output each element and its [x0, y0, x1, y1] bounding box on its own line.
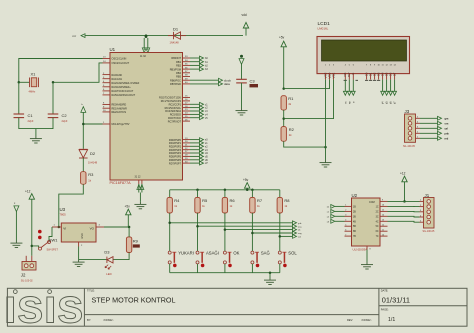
- capacitor C3: [236, 78, 258, 87]
- svg-text:C2: C2: [62, 113, 68, 118]
- title block frame: [7, 288, 467, 326]
- transistor-array U2 ULN2003A body: [345, 198, 388, 250]
- svg-text:RA4/T0CKI/C1OUT: RA4/T0CKI/C1OUT: [112, 90, 134, 93]
- svg-text:TITLE:: TITLE:: [87, 289, 95, 293]
- svg-text:2C: 2C: [376, 211, 379, 213]
- wire SW1 to U3: [49, 227, 52, 241]
- svg-text:vdd: vdd: [242, 13, 247, 17]
- svg-text:4MHz: 4MHz: [29, 90, 36, 94]
- resistor R1: [281, 96, 286, 110]
- svg-text:1: 1: [345, 205, 346, 207]
- isis logo: [4, 280, 84, 333]
- svg-text:14: 14: [382, 215, 384, 217]
- svg-text:<NONE>: <NONE>: [103, 318, 114, 322]
- wire c3 lower: [241, 83, 243, 108]
- svg-text:orn: orn: [445, 122, 449, 125]
- wire c3 upper: [241, 64, 243, 79]
- wire r9 top: [128, 227, 130, 237]
- ground pic: [134, 202, 146, 209]
- svg-text:3: 3: [420, 210, 421, 212]
- svg-text:COM: COM: [369, 201, 375, 204]
- svg-text:7C: 7C: [376, 236, 379, 238]
- svg-text:ısıs: ısıs: [4, 280, 84, 333]
- wire vdd rail: [284, 80, 330, 89]
- svg-text:16: 16: [382, 205, 384, 207]
- svg-text:RE0/AN5/RD: RE0/AN5/RD: [112, 104, 127, 107]
- svg-text:12: 12: [382, 225, 384, 227]
- svg-text:yel: yel: [445, 127, 449, 130]
- svg-text:RB7/PGD: RB7/PGD: [170, 83, 181, 86]
- ground c3: [236, 108, 248, 115]
- svg-text:ASAĞI: ASAĞI: [206, 250, 219, 255]
- svg-text:GND: GND: [81, 233, 84, 239]
- svg-text:1/1: 1/1: [388, 317, 395, 323]
- wire C2 column: [52, 82, 54, 114]
- svg-text:22pF: 22pF: [62, 119, 68, 123]
- svg-text:13: 13: [382, 220, 384, 222]
- wire OSC2 routing: [53, 63, 103, 82]
- svg-text:9: 9: [382, 200, 383, 202]
- svg-text:7805: 7805: [60, 213, 67, 217]
- svg-text:11: 11: [382, 230, 384, 232]
- svg-text:R5: R5: [202, 198, 208, 203]
- svg-text:5B: 5B: [353, 226, 356, 228]
- svg-text:2: 2: [345, 210, 346, 212]
- svg-text:7B: 7B: [353, 236, 356, 238]
- terminal reset arrow up: [81, 104, 86, 112]
- lcd LCD1 body: [317, 37, 410, 74]
- svg-text:RB2: RB2: [176, 65, 181, 68]
- wire U3 output: [104, 226, 129, 228]
- svg-text:6B: 6B: [353, 231, 356, 233]
- connector J2: [21, 256, 36, 283]
- wire caps to ground: [19, 118, 53, 129]
- wire r1 bottom: [283, 110, 285, 127]
- svg-text:U1: U1: [110, 47, 116, 52]
- wire crystal left stub: [19, 81, 30, 83]
- svg-text:1: 1: [417, 137, 418, 139]
- node crystal left: [18, 81, 21, 84]
- svg-text:5: 5: [420, 221, 421, 223]
- junction sw tap: [31, 245, 34, 248]
- ground U3: [73, 260, 85, 267]
- svg-text:01/31/11: 01/31/11: [382, 296, 410, 305]
- svg-text:RA3/AN3/VREF+: RA3/AN3/VREF+: [112, 86, 132, 89]
- svg-text:OSC1/CLKIN: OSC1/CLKIN: [112, 58, 127, 61]
- svg-text:pnk: pnk: [445, 132, 450, 135]
- svg-text:SIL-100-05: SIL-100-05: [423, 230, 435, 233]
- power +12 motor: [400, 171, 407, 201]
- wires J3 to motor terminals: [420, 116, 449, 140]
- junction vss gnd: [324, 146, 327, 149]
- terminal mr input: [81, 34, 85, 38]
- svg-text:SAĞ: SAĞ: [261, 250, 270, 255]
- svg-text:RC7/RX/DT: RC7/RX/DT: [168, 120, 182, 123]
- pic power pins top (11,32): [142, 35, 150, 53]
- resistors R4-R8: [167, 190, 290, 251]
- ground buttons: [264, 278, 276, 285]
- svg-text:3C: 3C: [376, 216, 379, 218]
- svg-text:YUKARI: YUKARI: [178, 250, 194, 255]
- svg-text:R4: R4: [174, 198, 180, 203]
- svg-text:10: 10: [382, 234, 384, 236]
- pic power pins bottom (31,12): [137, 180, 144, 202]
- svg-text:4B: 4B: [353, 221, 356, 223]
- led D3: [104, 250, 113, 276]
- svg-text:4: 4: [420, 215, 421, 217]
- svg-text:6: 6: [345, 230, 346, 232]
- junction MCLR: [82, 123, 85, 126]
- svg-text:RA2/AN2/VREF-/CVREF: RA2/AN2/VREF-/CVREF: [112, 82, 140, 85]
- svg-text:15: 15: [382, 210, 384, 212]
- diode D2: [79, 149, 98, 164]
- terminals U2 inputs: [327, 205, 345, 224]
- svg-text:1B: 1B: [353, 206, 356, 208]
- wire vee rail: [284, 80, 334, 119]
- svg-text:ULN2003A: ULN2003A: [353, 247, 368, 251]
- resistor R9: [126, 237, 131, 253]
- svg-text:D3: D3: [104, 250, 110, 255]
- svg-text:MCLR/Vpp/THV: MCLR/Vpp/THV: [112, 123, 130, 126]
- terminal input left: [14, 202, 19, 211]
- svg-text:R7: R7: [257, 198, 263, 203]
- svg-text:D1: D1: [173, 27, 179, 32]
- svg-text:OSC2/CLKOUT: OSC2/CLKOUT: [112, 62, 130, 65]
- svg-text:3: 3: [417, 127, 418, 129]
- svg-text:R6: R6: [230, 198, 236, 203]
- terminals RD0-RD7: [190, 138, 208, 165]
- svg-text:RB0/INT: RB0/INT: [171, 57, 181, 60]
- junctions top rail: [196, 189, 253, 192]
- terminals RB0-RB3: [190, 56, 208, 71]
- push buttons YUKARI ASAGI OK SAG SOL: [168, 250, 297, 272]
- wire U3 gnd: [78, 247, 80, 260]
- wire MCLR to pin1: [83, 123, 102, 125]
- svg-text:11 32: 11 32: [140, 55, 146, 58]
- svg-text:data: data: [224, 82, 230, 86]
- svg-text:8: 8: [370, 248, 371, 250]
- svg-text:4: 4: [417, 122, 418, 124]
- svg-text:R9: R9: [133, 239, 139, 244]
- terminal c3 top: [239, 55, 244, 65]
- crystal X1: [29, 72, 39, 94]
- terminals RC2-RC6: [190, 102, 208, 119]
- svg-text:2B: 2B: [353, 211, 356, 213]
- wire to SW1: [32, 246, 39, 248]
- svg-text:mr: mr: [73, 34, 77, 38]
- resistor R2: [281, 127, 286, 142]
- power +5 reg: [125, 205, 132, 227]
- svg-text:+5v: +5v: [243, 178, 249, 182]
- power +5 buttons: [243, 178, 250, 190]
- wire input to ground: [15, 212, 17, 241]
- wire mr to vdd: [85, 35, 243, 37]
- svg-text:1N4148: 1N4148: [170, 41, 180, 45]
- svg-text:RA1/AN1: RA1/AN1: [112, 78, 123, 81]
- power +5 lcd: [279, 36, 286, 89]
- wire button top rail: [170, 189, 280, 191]
- svg-text:C3: C3: [250, 78, 256, 83]
- svg-text:BY:: BY:: [87, 318, 91, 322]
- svg-text:STEP MOTOR KONTROL: STEP MOTOR KONTROL: [92, 296, 176, 305]
- lcd pin numbers and names: [323, 64, 396, 78]
- op-amp U1 PIC16F877A microcontroller: [103, 47, 191, 185]
- svg-text:+12: +12: [400, 171, 406, 175]
- svg-text:VO: VO: [90, 227, 95, 231]
- junction vee node: [282, 117, 285, 120]
- svg-text:DATE:: DATE:: [381, 288, 389, 292]
- svg-text:VI: VI: [63, 227, 66, 231]
- ground lcd: [320, 160, 332, 167]
- diode D1: [168, 27, 186, 45]
- wire MCLR vertical: [82, 112, 84, 148]
- svg-text:R3: R3: [88, 172, 94, 177]
- wire OSC1 to crystal: [19, 59, 103, 83]
- svg-text:R8: R8: [284, 198, 290, 203]
- svg-text:31 12: 31 12: [135, 176, 142, 179]
- node crystal right: [52, 81, 55, 84]
- svg-text:REV:: REV:: [347, 318, 353, 322]
- svg-text:1: 1: [420, 200, 421, 202]
- svg-text:RB6/PGC: RB6/PGC: [170, 79, 181, 82]
- power vdd: [242, 13, 249, 36]
- lcd screen: [322, 40, 407, 61]
- wire R3 to U3 input: [59, 184, 84, 227]
- svg-text:D2: D2: [90, 151, 96, 156]
- switch SW1: [39, 237, 59, 251]
- svg-text:J2: J2: [21, 273, 26, 278]
- svg-text:red: red: [445, 137, 449, 140]
- wire C1 column: [18, 82, 20, 114]
- svg-text:+5v: +5v: [125, 205, 131, 209]
- terminal data: [190, 83, 219, 85]
- svg-text:grn: grn: [445, 117, 449, 120]
- svg-text:+12: +12: [25, 189, 31, 193]
- svg-text:RB1: RB1: [176, 61, 181, 64]
- junction on reset wire: [145, 34, 148, 37]
- svg-text:<NONE>: <NONE>: [361, 318, 372, 322]
- svg-text:RD7/PSP7: RD7/PSP7: [169, 162, 182, 165]
- terminal clock: [190, 79, 219, 81]
- capacitor C2: [48, 113, 68, 123]
- svg-text:3: 3: [345, 215, 346, 217]
- svg-text:U2: U2: [352, 193, 358, 198]
- svg-text:RE1/AN6/WR: RE1/AN6/WR: [112, 107, 127, 110]
- svg-text:J3: J3: [405, 109, 410, 114]
- wire r9 to led: [113, 253, 129, 260]
- capacitor C1: [14, 113, 34, 123]
- ground input: [10, 241, 22, 248]
- connector J1 body: [420, 198, 435, 229]
- svg-text:RB5: RB5: [176, 76, 181, 79]
- svg-text:3B: 3B: [353, 216, 356, 218]
- svg-text:U3: U3: [60, 207, 66, 212]
- logic-state red dots SW1: [38, 230, 42, 234]
- junction +5 node: [128, 226, 131, 229]
- resistor R3: [81, 172, 86, 185]
- wire button bottom rail: [170, 272, 280, 274]
- svg-text:2: 2: [420, 205, 421, 207]
- svg-text:+5v: +5v: [279, 36, 285, 40]
- junction bottom rail: [269, 271, 272, 274]
- svg-text:RA0/AN0: RA0/AN0: [112, 74, 123, 77]
- wire D2 to R3: [82, 158, 84, 172]
- svg-text:2: 2: [417, 132, 418, 134]
- svg-text:1N4148: 1N4148: [88, 161, 98, 165]
- svg-text:6C: 6C: [376, 231, 379, 233]
- power +12 input: [25, 189, 35, 255]
- regulator U3 7805 body: [52, 223, 104, 247]
- wires U2 outputs to J1: [388, 201, 420, 222]
- ground crystal: [30, 136, 42, 143]
- svg-text:LED: LED: [106, 272, 111, 276]
- svg-text:R1: R1: [288, 96, 294, 101]
- svg-text:R2: R2: [289, 127, 295, 132]
- svg-text:SOL: SOL: [288, 250, 297, 255]
- ground U2: [361, 262, 373, 269]
- svg-text:5C: 5C: [376, 226, 379, 228]
- terminals lcd d4-d7: [381, 80, 397, 105]
- svg-text:22pF: 22pF: [28, 119, 34, 123]
- wires button sense lines: [168, 221, 302, 239]
- svg-text:LM016L: LM016L: [318, 27, 329, 31]
- svg-text:rw: rw: [348, 101, 351, 104]
- junction com +12: [403, 200, 406, 203]
- svg-text:RB4: RB4: [176, 72, 181, 75]
- svg-text:SW1: SW1: [49, 237, 58, 242]
- svg-text:RA5/AN4/SS/C2OUT: RA5/AN4/SS/C2OUT: [112, 94, 136, 97]
- wire vss column: [325, 80, 327, 160]
- lcd pin stubs: [326, 74, 395, 80]
- svg-text:RE2/AN7/CS: RE2/AN7/CS: [112, 111, 127, 114]
- svg-text:5: 5: [345, 225, 346, 227]
- svg-text:PIC16F877A: PIC16F877A: [110, 181, 132, 185]
- svg-text:5: 5: [417, 117, 418, 119]
- svg-text:SW-SPST: SW-SPST: [47, 248, 59, 251]
- svg-text:X1: X1: [31, 72, 37, 77]
- connector J3 body: [405, 114, 421, 142]
- wire gnd to led: [79, 259, 107, 261]
- wire r2 to ground rail: [284, 141, 326, 147]
- svg-text:SIL-100-05: SIL-100-05: [403, 145, 415, 148]
- svg-text:1C: 1C: [376, 206, 379, 208]
- svg-text:7: 7: [345, 234, 346, 236]
- svg-text:4: 4: [345, 220, 346, 222]
- svg-text:OK: OK: [233, 250, 239, 255]
- wire U2 gnd: [366, 250, 368, 263]
- terminals lcd rs rw e: [343, 80, 355, 104]
- svg-text:C1: C1: [28, 113, 34, 118]
- svg-text:4C: 4C: [376, 221, 379, 223]
- svg-text:RB3/PGM: RB3/PGM: [170, 68, 181, 71]
- lcd no-connect marks: [344, 79, 381, 81]
- svg-text:PAGE:: PAGE:: [381, 308, 389, 312]
- junction r1 top: [282, 87, 285, 90]
